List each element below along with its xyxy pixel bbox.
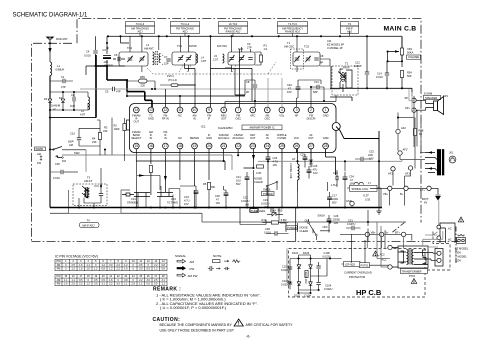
svg-text:C21: C21 (236, 175, 241, 179)
svg-text:21: 21 (222, 144, 226, 148)
wires under pins 15-22 to bus (136, 161, 194, 208)
capacitor C7 15P (166, 59, 170, 61)
svg-text:MAIN C.B: MAIN C.B (384, 25, 417, 32)
svg-text:CLEAR: CLEAR (254, 180, 263, 184)
svg-text:(W): (W) (245, 203, 249, 207)
svg-text:NOISE: NOISE (300, 226, 308, 230)
svg-text:C17: C17 (332, 194, 337, 198)
svg-text:10V: 10V (184, 202, 189, 206)
svg-text:ADJ: ADJ (138, 30, 144, 34)
svg-text:(TC1,4): (TC1,4) (168, 78, 177, 82)
svg-text:R101 2K2: R101 2K2 (304, 272, 308, 284)
resistor R55 220 (139, 79, 148, 83)
circuit protector ICP-N25 (344, 262, 361, 267)
svg-text:VR1: VR1 (407, 47, 413, 51)
svg-text:2: 2 (310, 108, 312, 112)
diode D1 (48, 99, 52, 103)
long gray wire (125, 88, 340, 90)
svg-text:AF2′: AF2′ (403, 148, 409, 152)
svg-text:CHOKE COIL: CHOKE COIL (289, 163, 293, 180)
svg-text:RF IN: RF IN (162, 117, 169, 121)
svg-text:C26: C26 (334, 214, 339, 218)
svg-text:AM: AM (57, 279, 61, 282)
svg-text:NF: NF (295, 114, 299, 118)
svg-text:C105: C105 (324, 251, 331, 255)
switch SW1B (266, 185, 268, 187)
capacitor C1 47P (63, 79, 65, 83)
svg-text:R54: R54 (407, 71, 412, 75)
adjustment label box L6,TC2 FM TRACKING RANGE ADJ (219, 22, 248, 34)
svg-text:FM: FM (62, 159, 66, 163)
svg-text:56K: 56K (407, 74, 412, 78)
svg-text:C8: C8 (320, 54, 324, 58)
svg-text:AF2: AF2 (401, 126, 406, 130)
svg-text:AM OSC: AM OSC (284, 45, 294, 49)
svg-text:10: 10 (193, 108, 197, 112)
mains plug icon + model text (458, 217, 464, 222)
svg-text:IN: IN (164, 136, 167, 140)
AM OSC tank T1 / TC5 (293, 36, 330, 72)
adjustment label box TC1,L4 FM TRACKING ADJ (171, 22, 200, 34)
svg-text:1N4148: 1N4148 (51, 104, 61, 108)
svg-text:C14: C14 (377, 72, 382, 76)
stub wires from adj boxes (140, 31, 350, 36)
svg-text:0.022U: 0.022U (281, 283, 289, 287)
svg-text:TC4: TC4 (127, 46, 132, 50)
jack icon JK1 (449, 156, 456, 163)
op-amp / radio IC U1 KA22425D body (130, 104, 337, 153)
capacitor C14 0.01U (385, 73, 389, 75)
svg-text:C30: C30 (215, 194, 220, 198)
svg-text:47U: 47U (313, 168, 318, 172)
svg-text:25: 25 (280, 144, 284, 148)
resistor R 3.3K noise clear (257, 165, 264, 168)
electrolytic C25 47U 10V (307, 170, 312, 173)
svg-text:GND: GND (346, 199, 352, 203)
IC pin 26 (294, 143, 300, 149)
svg-text:OUT: OUT (308, 136, 314, 140)
resistor R58 56 (413, 129, 416, 136)
svg-text:L6,TC2: L6,TC2 (229, 22, 238, 26)
svg-text:FM IF: FM IF (343, 66, 350, 70)
svg-text:8 OHM: 8 OHM (424, 92, 432, 96)
battery polarity diode (436, 195, 441, 200)
electrolytic C17 220U 50V (327, 197, 332, 200)
svg-text:GND: GND (206, 136, 212, 140)
capacitor C36 0.01U (61, 170, 63, 174)
svg-text:SW1A: SW1A (318, 214, 326, 218)
capacitor C4 0.01U (93, 51, 97, 53)
capacitor C8 2P near pin6 (253, 85, 257, 87)
svg-text:4P: 4P (320, 61, 323, 65)
svg-text:R50: R50 (278, 209, 283, 213)
top supply bus wire (108, 36, 402, 61)
svg-text:19: 19 (193, 144, 197, 148)
svg-text:27P: 27P (247, 46, 252, 50)
electrolytic C19 (194, 191, 199, 194)
svg-text:5: 5 (266, 108, 268, 112)
IC pin 20 (206, 143, 212, 149)
caution warning triangle (234, 319, 243, 326)
svg-text:ON: ON (305, 219, 309, 223)
adjustment label box T1,TC3 AM FREQUENCY RANGE ADJ (278, 22, 308, 34)
electrolytic C26 2200U 10V (327, 219, 332, 222)
svg-text:JK1: JK1 (449, 151, 454, 155)
svg-text:1.9: 1.9 (264, 47, 268, 51)
svg-text:VOL: VOL (279, 114, 285, 118)
svg-text:CLEAR: CLEAR (300, 229, 309, 233)
svg-text:4.7U: 4.7U (273, 160, 279, 164)
svg-text:0.022U: 0.022U (241, 199, 249, 203)
svg-text:AFC/AGC: AFC/AGC (218, 136, 230, 140)
svg-text:SP+: SP+ (405, 106, 410, 110)
svg-text:1NP: 1NP (70, 104, 75, 108)
resistor note row (213, 260, 221, 263)
svg-text:GND: GND (148, 117, 154, 121)
signal arrow (48, 48, 51, 53)
output connector block (435, 249, 443, 267)
band switch SW2 (50, 147, 86, 158)
svg-text:IN: IN (150, 136, 153, 140)
ground symbol (376, 211, 381, 214)
svg-text:SPEAKER: SPEAKER (425, 96, 437, 100)
AF1 terminals (391, 167, 395, 171)
wires from AC connector down to transformer (423, 231, 443, 247)
svg-text:R2: R2 (114, 124, 118, 128)
svg-text:100P: 100P (68, 140, 74, 144)
svg-text:D102: D102 (294, 293, 301, 297)
svg-text:OFF: OFF (323, 225, 329, 229)
capacitor C12 1200P (365, 72, 369, 74)
svg-text:7: 7 (237, 108, 239, 112)
svg-text:PT01: PT01 (409, 274, 416, 278)
electrolytic C30 47 16V (224, 193, 229, 196)
svg-text:NOTE: NOTE (213, 254, 221, 258)
svg-text:EZ MODEL 6P: EZ MODEL 6P (327, 43, 344, 47)
svg-text:6: 6 (252, 108, 254, 112)
svg-text:C12: C12 (355, 61, 360, 65)
wires top-left net (86, 36, 129, 75)
svg-text:R4: R4 (92, 137, 96, 141)
arrow on pin17 wire (164, 176, 167, 181)
svg-text:0.01U: 0.01U (84, 54, 91, 58)
AC inlet connector (440, 223, 455, 243)
IC pin 5 (264, 107, 270, 113)
svg-text:0.01U: 0.01U (53, 176, 60, 180)
svg-text:CF1: CF1 (131, 197, 136, 201)
IC pin 8 (221, 107, 227, 113)
svg-text:0.01U: 0.01U (376, 75, 383, 79)
AF2&apos; terminal (398, 151, 402, 155)
svg-text:AM/FM/IF POWER IC: AM/FM/IF POWER IC (249, 126, 274, 130)
svg-text:PIN: PIN (57, 260, 61, 263)
wire from C11 down to bus (330, 66, 352, 101)
svg-text:22: 22 (236, 144, 240, 148)
svg-text:SIGNAL: SIGNAL (175, 254, 186, 258)
svg-text:C104: C104 (325, 284, 332, 288)
resistor on pin16 line (149, 166, 152, 173)
svg-text:U MODEL: U MODEL (455, 255, 467, 259)
svg-text:FM RF: FM RF (189, 44, 197, 48)
svg-text:CF2: CF2 (171, 197, 176, 201)
svg-text:CAUTION:: CAUTION: (153, 317, 181, 323)
svg-text:T0.7MKD: T0.7MKD (167, 201, 178, 205)
transformer input terminals (388, 245, 392, 249)
svg-text:TUNE: TUNE (251, 209, 258, 213)
resistor R1 (259, 55, 262, 62)
electrolytic C40 47 16V (296, 87, 301, 90)
svg-text:SPRING COIL: SPRING COIL (352, 187, 369, 191)
HP C.B dashed border (289, 232, 451, 298)
svg-text:PROTECTOR: PROTECTOR (349, 275, 365, 279)
svg-text:C9: C9 (247, 42, 251, 46)
svg-text:R3: R3 (104, 126, 108, 130)
coil L4 4.8T (196, 54, 198, 63)
svg-text:C32: C32 (369, 150, 374, 154)
GND terminal (350, 201, 354, 205)
board edge terminals VB+ B+ BT+ row 2 (365, 232, 369, 236)
inductor L1 0.88UH (50, 62, 52, 76)
svg-text:50KA: 50KA (407, 51, 414, 55)
svg-text:AF1: AF1 (388, 172, 393, 176)
heavy vertical rail (336, 127, 379, 189)
IC pin 21 (221, 143, 227, 149)
svg-text:C5: C5 (105, 90, 109, 94)
IC pin 1 (323, 107, 329, 113)
svg-text:0.35: 0.35 (365, 198, 371, 202)
svg-text:28: 28 (324, 144, 328, 148)
main left vertical wire (49, 76, 51, 208)
svg-text:14: 14 (134, 108, 138, 112)
svg-text:C38: C38 (265, 227, 270, 231)
svg-text:13: 13 (149, 108, 153, 112)
svg-text:B+: B+ (385, 231, 389, 235)
svg-text:230V: 230V (455, 251, 461, 255)
svg-text:C1: C1 (61, 75, 65, 79)
rod antenna ANT (47, 37, 54, 62)
svg-text:C22: C22 (243, 196, 248, 200)
capacitor C2 1NP (73, 97, 75, 101)
svg-text:1.5U: 1.5U (331, 183, 337, 187)
svg-text:METER: METER (190, 136, 199, 140)
IC pin 3 (294, 107, 300, 113)
FM discriminator T2 dashed box (332, 66, 358, 95)
svg-text:OUT: OUT (250, 136, 256, 140)
svg-text:R55: R55 (140, 75, 145, 79)
PVC1 trimmer body (171, 84, 178, 87)
TRANSFORMER label (401, 269, 428, 274)
svg-text:TC5: TC5 (304, 45, 309, 49)
svg-text:50V: 50V (236, 182, 241, 186)
svg-text:ppm: ppm (108, 64, 113, 67)
HP wires (290, 234, 390, 293)
svg-text:D1: D1 (44, 97, 48, 101)
svg-text:SELECT: SELECT (131, 136, 142, 140)
svg-text:10V: 10V (313, 171, 318, 175)
svg-text:TC1,L4: TC1,L4 (181, 22, 190, 26)
svg-text:16V: 16V (273, 163, 278, 167)
svg-text:C23: C23 (263, 198, 268, 202)
svg-text:20: 20 (207, 144, 211, 148)
arrowheads on jack wires (428, 151, 432, 169)
wires pins 26,27,28 (297, 149, 336, 175)
svg-text:KA22425D: KA22425D (218, 126, 233, 130)
svg-text:18: 18 (178, 144, 182, 148)
coil L2 4.8T (88, 97, 90, 110)
svg-text:D101: D101 (292, 251, 299, 255)
svg-text:PXT01: PXT01 (361, 264, 369, 268)
svg-text:AC: AC (448, 227, 452, 231)
PVC tuning gang dashed link (147, 62, 282, 74)
svg-text:5.6M: 5.6M (281, 218, 287, 222)
IC pin 24 (264, 143, 270, 149)
wires speaker/jack area (379, 96, 425, 188)
svg-text:B+: B+ (400, 192, 404, 196)
svg-text:IF: IF (208, 117, 211, 121)
IC pin 27 (308, 143, 314, 149)
svg-text:IN: IN (266, 136, 269, 140)
FM RF tank circuit TC1 / L4 (172, 36, 196, 71)
svg-text:4.8T: 4.8T (201, 59, 207, 63)
diode D2 (61, 99, 65, 103)
svg-text:C4: C4 (86, 50, 90, 54)
power terminals VB+ B+ BT+ (388, 186, 392, 190)
svg-text:6V: 6V (424, 201, 427, 205)
chain diagonal jog (392, 223, 456, 264)
IC pin 9 (206, 107, 212, 113)
svg-text:8: 8 (223, 108, 225, 112)
svg-text:24: 24 (265, 144, 269, 148)
headphone jack JK1 (425, 150, 444, 176)
svg-text:LED1: LED1 (259, 209, 266, 213)
svg-text:AM: AM (190, 260, 195, 264)
svg-text:R1: R1 (264, 44, 268, 48)
svg-text:C8: C8 (246, 80, 250, 84)
wires above IC top pins (127, 36, 252, 107)
svg-text:PIN: PIN (57, 275, 61, 278)
voltage table pins 1-14 (55, 259, 167, 270)
IF transformer T3 AM IFT dashed box (73, 184, 107, 206)
svg-text:26: 26 (295, 144, 299, 148)
svg-text:AC: AC (448, 238, 452, 242)
svg-text:50V: 50V (332, 201, 337, 205)
IC pin 18 (177, 143, 183, 149)
svg-text:10U: 10U (236, 179, 241, 183)
board edge connector AM/FW (35, 147, 46, 151)
svg-text:C101: C101 (282, 265, 289, 269)
svg-text:23K: 23K (92, 140, 97, 144)
svg-text:D103: D103 (303, 251, 310, 255)
svg-text:12: 12 (164, 108, 168, 112)
svg-text:R5: R5 (203, 182, 207, 186)
svg-text:47P: 47P (61, 85, 66, 89)
gray bus y=161 (258, 160, 402, 162)
electrolytic C29 220 16V (303, 157, 308, 160)
svg-text:16V: 16V (216, 201, 221, 205)
svg-text:SW50: SW50 (36, 147, 44, 151)
open arrow AM (177, 259, 186, 263)
svg-text:SP-: SP- (405, 96, 409, 100)
ceramic filter CF1 SF0450B (122, 193, 150, 197)
svg-text:C36: C36 (55, 162, 60, 166)
IC pin 16 (148, 143, 154, 149)
svg-text:AM: AM (37, 152, 41, 156)
svg-text:AM FW: AM FW (188, 274, 198, 278)
svg-text:2200U: 2200U (333, 218, 341, 222)
svg-text:U MODEL 4P: U MODEL 4P (327, 46, 343, 50)
arrow under pin23 (244, 149, 254, 168)
capacitor C32 22N (361, 157, 363, 161)
IC pin 7 (235, 107, 241, 113)
IC pin 2 (308, 107, 314, 113)
svg-text:RANGE ADJ: RANGE ADJ (226, 30, 241, 34)
main board chain border (32, 19, 459, 242)
svg-text:FM: FM (57, 283, 60, 286)
svg-text:0.022U: 0.022U (281, 268, 289, 272)
svg-text:OSC: OSC (235, 117, 241, 121)
svg-text:AFC/AGC: AFC/AGC (232, 136, 244, 140)
svg-text:C34: C34 (349, 175, 354, 179)
svg-text:16: 16 (149, 144, 153, 148)
svg-text:GND: GND (323, 136, 329, 140)
line with arrow to CF1 (137, 176, 160, 191)
svg-text:AFC: AFC (250, 114, 255, 118)
svg-text:20K: 20K (211, 185, 216, 189)
svg-text:FM OSC: FM OSC (217, 44, 227, 48)
svg-text:OUT: OUT (134, 120, 140, 124)
svg-text:0.022U: 0.022U (324, 287, 332, 291)
svg-text:′0.3T′: ′0.3T′ (363, 194, 370, 198)
svg-text:AM IFT: AM IFT (84, 179, 93, 183)
svg-text:FILTER: FILTER (278, 136, 287, 140)
svg-text:AC2: AC2 (380, 253, 386, 257)
svg-text:VB+: VB+ (383, 192, 388, 196)
svg-text:11: 11 (178, 108, 182, 112)
FM OSC tank circuit TC2 / TC3 / L5 (228, 36, 255, 72)
IC pin 17 (163, 143, 169, 149)
svg-text:SCHEMATIC DIAGRAM-1/1: SCHEMATIC DIAGRAM-1/1 (13, 13, 89, 19)
svg-text:C24: C24 (273, 156, 278, 160)
protector PXT01 (360, 263, 370, 268)
ceramic filter CF2 (157, 193, 173, 197)
resistor 20K on pin20 (207, 183, 210, 190)
IC pin 15 (133, 143, 139, 149)
svg-text:NOISE: NOISE (254, 177, 262, 181)
ground loop around T3 (69, 190, 130, 213)
svg-text:OSC: OSC (264, 117, 270, 121)
svg-text:1200P: 1200P (354, 64, 362, 68)
IC pin 22 (235, 143, 241, 149)
svg-text:16V: 16V (287, 90, 292, 94)
svg-text:10V: 10V (334, 221, 339, 225)
svg-text:HP C.B: HP C.B (356, 288, 382, 297)
electrolytic C21 (245, 177, 250, 180)
IC pin 13 (148, 107, 154, 113)
wires around D1/D2 (50, 92, 96, 118)
capacitor C10 100P (77, 138, 81, 140)
svg-text:C35: C35 (333, 171, 338, 175)
svg-text:C6: C6 (114, 53, 118, 57)
svg-text:C10: C10 (70, 132, 75, 136)
svg-text:ARE CRITICAL FOR SAFETY: ARE CRITICAL FOR SAFETY (246, 323, 294, 327)
IC pin 10 (192, 107, 198, 113)
warning AC2 (373, 251, 379, 256)
svg-text:FM: FM (57, 268, 60, 271)
AF2 terminal (396, 129, 400, 133)
svg-text:1: 1 (325, 108, 327, 112)
svg-text:NC: NC (178, 114, 182, 118)
svg-text:TC1: TC1 (177, 44, 182, 48)
